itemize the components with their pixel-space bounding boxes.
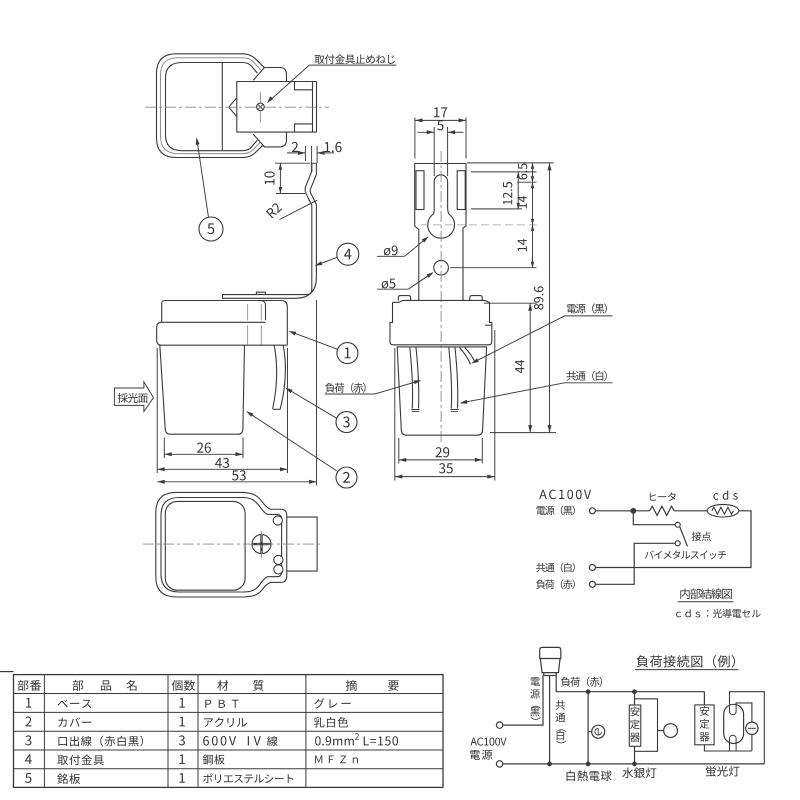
cover top view (part 5) xyxy=(157,54,265,158)
centerline horizontal, top view xyxy=(145,106,329,108)
mercury lamp branch xyxy=(634,692,636,764)
bracket side cut-outs xyxy=(416,171,465,210)
front face view inner outline xyxy=(161,498,282,593)
balloon 1 (base) xyxy=(289,331,358,364)
label 負荷(赤) left view xyxy=(325,380,422,394)
balloon 2 (cover) xyxy=(246,411,357,488)
dimension 12.5 xyxy=(503,172,520,209)
bracket fixing screw xyxy=(257,103,265,111)
dimension 14 lower xyxy=(518,225,535,268)
terminal 共通(白) xyxy=(536,563,575,573)
load connection diagram xyxy=(470,647,764,781)
photocell device symbol xyxy=(540,647,561,658)
label 負荷(赤) xyxy=(561,677,602,687)
dimension 5 (slot width) xyxy=(418,120,464,176)
mercury lamp loop xyxy=(635,699,658,752)
bimetal switch blade xyxy=(680,527,688,547)
cap with ears, right view xyxy=(393,296,490,303)
tube filaments xyxy=(730,704,737,715)
hidden neck lines (gray), side view xyxy=(248,304,262,345)
resistor heater ヒータ xyxy=(650,492,676,501)
label 接点 xyxy=(692,532,711,541)
wire: common white down to bottom bus xyxy=(549,676,551,764)
light-receiving face arrow (採光面) xyxy=(114,382,153,412)
wire: source black xyxy=(503,676,543,726)
cover pointed tip between square and bracket xyxy=(229,98,237,116)
wire: source to junction xyxy=(595,510,649,512)
bracket screw tab on cap top xyxy=(256,292,265,294)
hole dia 5 xyxy=(434,260,449,275)
bracket front view (part 4) xyxy=(415,164,466,301)
centerline vertical through screw, front view xyxy=(261,531,263,558)
bottom bus xyxy=(503,763,765,765)
bracket cross-section detail (part 4 side profile with jog) xyxy=(305,163,316,231)
mounting bracket plate (top view, part 4) xyxy=(237,82,317,133)
dimension 1.6 (thickness) xyxy=(317,142,341,163)
title 内部結線図 xyxy=(680,588,731,599)
label: mounting bracket set screw (取付金具止めねじ) xyxy=(267,54,397,103)
label 共通(白) vertical xyxy=(556,700,565,709)
fluorescent tube xyxy=(724,704,744,743)
label 白熱電球 xyxy=(567,770,612,781)
bracket side view (part 4): L strip continuing from detail xyxy=(223,232,317,299)
dimension 14 upper xyxy=(518,182,535,225)
dimension 44 xyxy=(515,303,532,432)
wire: cds right, down, to common xyxy=(595,511,751,568)
junction dots xyxy=(547,762,551,766)
cds photocell xyxy=(713,490,737,499)
dimension 53 xyxy=(157,300,316,486)
label 電源(黒) vertical xyxy=(531,677,540,686)
wire: load red to top bus xyxy=(556,676,704,692)
starter loop xyxy=(736,703,752,722)
dimension 35 xyxy=(395,330,495,481)
boss rectangle at right xyxy=(287,517,317,571)
dimension 26 xyxy=(164,438,243,459)
cap (top cover piece), side view xyxy=(162,301,288,346)
keyhole slot with dia 9 hole xyxy=(428,175,455,238)
collar, right view xyxy=(390,302,492,345)
bimetal switch lower contact xyxy=(675,541,680,546)
dimension 17 xyxy=(415,107,466,158)
centerline vertical, right view xyxy=(440,151,442,445)
dimension 6.5 xyxy=(518,163,534,182)
balloon 4 (mounting bracket) xyxy=(315,243,359,266)
dimension 10 (jog height) xyxy=(264,163,310,193)
centerline horizontal, front view xyxy=(143,543,321,545)
note cds:光導電セル xyxy=(676,609,761,618)
belt (band around middle), side view xyxy=(157,322,288,345)
right-side dimension extension lines xyxy=(421,163,556,433)
dimension 2 (jog offset) xyxy=(287,142,312,172)
front face view outer profile xyxy=(156,492,287,597)
label φ9 xyxy=(377,236,429,256)
label 水銀灯 xyxy=(622,767,656,778)
balloon 3 (lead wire) xyxy=(285,388,357,433)
label 電源(黒) right view xyxy=(471,303,612,363)
wire: resistor to cds xyxy=(674,510,707,512)
boss (cylindrical neck) on cover, top view xyxy=(253,68,286,147)
dimension 43 xyxy=(157,348,287,473)
label 蛍光灯 xyxy=(706,766,740,777)
body / base cup (parts 1-2), side view xyxy=(160,345,245,434)
dimension 89.6 xyxy=(534,163,552,433)
label バイメタルスイッチ xyxy=(645,550,726,559)
internal wiring diagram xyxy=(536,490,760,618)
AC100V source terminals xyxy=(470,737,506,745)
ballast 安定器 (mercury) xyxy=(629,705,641,746)
wire: junction down to contact xyxy=(633,511,675,525)
wire holes xyxy=(273,516,283,574)
body cup, right view xyxy=(397,347,486,435)
incandescent lamp branch xyxy=(587,692,589,764)
terminal 電源(黒) xyxy=(536,506,574,516)
title 負荷接続図(例) xyxy=(636,655,735,668)
glow starter xyxy=(746,722,758,734)
label 共通(白) right view xyxy=(460,371,613,404)
tube top-left pin loop to bottom bus xyxy=(730,692,765,764)
front window (acrylic) xyxy=(165,501,245,590)
centerline vertical through screw xyxy=(259,92,261,123)
label AC100V xyxy=(539,490,591,500)
fluorescent branch: ballast xyxy=(703,692,705,705)
bimetal switch upper contact xyxy=(675,522,680,527)
lead wire (part 3), side view xyxy=(273,346,286,410)
lead wires, right view xyxy=(410,348,475,412)
node junction xyxy=(631,508,636,513)
phillips screw, front view xyxy=(252,535,271,554)
parts table xyxy=(0,672,443,788)
label φ5 xyxy=(377,272,434,289)
label R2 (bend radius) xyxy=(266,200,317,219)
terminal 負荷(赤) xyxy=(536,579,575,589)
dimension 29 xyxy=(399,438,483,464)
wire: lower contact to load terminal xyxy=(595,543,675,584)
balloon 5 (nameplate) xyxy=(196,137,223,241)
